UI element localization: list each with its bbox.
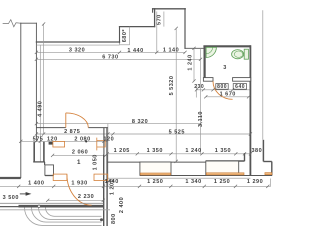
wall mid piece [45, 174, 53, 176]
dimension thin lines [0, 12, 271, 201]
dim ext right end [270, 179, 272, 187]
dim ext x200 [200, 48, 202, 154]
wall room1 north right [88, 127, 108, 129]
svg-text:1 205: 1 205 [114, 148, 130, 154]
svg-text:380: 380 [251, 148, 262, 154]
wall window step vert [244, 153, 246, 161]
wall top hook [152, 9, 154, 12]
wall bath bottom right stub [233, 78, 251, 82]
wall right B horiz [263, 161, 271, 163]
door jamb lower left [53, 174, 67, 180]
dim line 2230 [48, 199, 104, 201]
dim ext x107.9 [107, 124, 109, 187]
dim line 2060 [53, 154, 106, 156]
door arc bathroom [213, 81, 233, 99]
door jamb upper right [97, 138, 105, 151]
svg-text:1 290: 1 290 [247, 179, 263, 185]
wall bottom thin left piece [0, 206, 19, 208]
svg-text:2 060: 2 060 [72, 150, 88, 156]
window1 frame [140, 162, 171, 175]
window2 frame [206, 161, 239, 176]
pipe curve 2 [32, 208, 102, 223]
toilet bowl [232, 50, 244, 59]
dim line bottom row [0, 185, 271, 187]
svg-text:8 320: 8 320 [132, 119, 148, 125]
wall right B vert [262, 140, 264, 162]
svg-text:1 250: 1 250 [214, 179, 230, 185]
wall room2 top outer [36, 41, 119, 43]
wall column B left [33, 142, 35, 162]
wall top [153, 8, 186, 10]
svg-text:5 525: 5 525 [169, 129, 185, 135]
door arc upper [66, 113, 89, 128]
wall room2 top inner line [36, 44, 119, 46]
svg-text:1 240: 1 240 [187, 54, 193, 70]
wall window2 top and step [206, 160, 245, 162]
tick dot 2080 [85, 140, 87, 142]
texts horizontal [3, 47, 263, 200]
wall left outer [20, 23, 22, 177]
svg-text:4 490: 4 490 [37, 101, 43, 117]
door size tag boxes [216, 84, 247, 90]
walls [3, 9, 203, 178]
door leaf upper [65, 113, 67, 128]
wall shaft rect [45, 165, 54, 175]
right/bottom walls [0, 10, 272, 226]
texts rotated [37, 14, 204, 229]
dim line 4490 vertical [43, 24, 45, 134]
tag box 800 [216, 84, 228, 90]
door arc lower [67, 174, 92, 205]
svg-text:1 240: 1 240 [185, 148, 201, 154]
dim box 570 left [156, 12, 158, 53]
svg-text:1 140: 1 140 [163, 47, 179, 53]
svg-text:1 400: 1 400 [28, 180, 44, 186]
wall band lower gray line [107, 177, 250, 179]
dim line 1240 vertical [193, 48, 195, 81]
wall upper ledge [120, 26, 155, 28]
bathroom walls [203, 45, 250, 175]
leader arrow 3500 [20, 192, 32, 196]
svg-text:2 875: 2 875 [64, 129, 80, 135]
junction dot [100, 218, 103, 221]
orange elements [53, 81, 272, 205]
dim line 1670 [206, 96, 249, 98]
window sill 1 [140, 173, 170, 175]
svg-text:6 730: 6 730 [102, 55, 118, 61]
svg-text:1 200: 1 200 [110, 179, 116, 195]
svg-text:1: 1 [77, 159, 81, 166]
wall double mid left [103, 154, 105, 226]
dim line 575-120-2080-120 [21, 140, 108, 142]
svg-text:575: 575 [33, 136, 44, 142]
svg-text:120: 120 [47, 136, 58, 142]
dim line 2875 and 5525 [36, 133, 250, 135]
wall room1 north left [36, 127, 65, 129]
tag box 640 [233, 84, 246, 90]
wall stub upper door [49, 142, 53, 145]
svg-text:5 5320: 5 5320 [169, 76, 175, 96]
wall right of top [184, 9, 186, 49]
wall left column inner [35, 23, 37, 141]
wall bath bottom left stub [203, 78, 213, 82]
svg-text:1 250: 1 250 [147, 179, 163, 185]
wall connector to bath [185, 47, 203, 49]
dim ext 230 left [195, 84, 197, 98]
green fixtures [206, 47, 248, 59]
svg-text:680*: 680* [122, 29, 128, 43]
dim box 680 right [129, 27, 131, 45]
dim box 680 left [119, 43, 121, 45]
svg-text:570: 570 [157, 14, 163, 25]
svg-text:1 350: 1 350 [147, 148, 163, 154]
dim ext 40.3 [39, 45, 41, 161]
svg-text:2 400: 2 400 [119, 197, 125, 213]
svg-text:1 340: 1 340 [185, 179, 201, 185]
svg-text:2 080: 2 080 [74, 136, 90, 142]
svg-text:120: 120 [103, 136, 114, 142]
svg-text:3 320: 3 320 [69, 47, 85, 53]
pipe ring marker [38, 205, 41, 208]
wall thin right edge [262, 10, 264, 140]
wire corridor inner line [0, 202, 103, 204]
pipe curve 4 [46, 208, 102, 217]
wire break symbol top-left [3, 20, 21, 27]
toilet tank [244, 49, 248, 59]
dim box 570 right [163, 12, 165, 27]
wall right edge vert [271, 162, 273, 176]
door jamb upper left [53, 141, 65, 147]
dim box 680 bottom [120, 44, 130, 46]
gray pipe curves bottom-left [0, 208, 110, 226]
toilet seat line [234, 51, 242, 57]
wall 120 piece right [106, 128, 108, 155]
corner washbasin [206, 47, 216, 57]
dimension ticks [17, 22, 269, 202]
wall bottom main [19, 205, 104, 208]
window sill 2 [206, 173, 244, 175]
wall 120 piece left [103, 128, 105, 155]
svg-text:2 230: 2 230 [78, 194, 94, 200]
dim line 1205 row [107, 153, 250, 155]
wall 570 vertical [154, 9, 156, 27]
dim line 8320 [36, 123, 200, 125]
dim line 230-800-640 [197, 89, 251, 91]
svg-text:1 050: 1 050 [93, 154, 99, 170]
svg-text:1 800: 1 800 [111, 213, 117, 226]
svg-text:3 110: 3 110 [198, 111, 204, 127]
wall step column to shaft [44, 162, 46, 165]
dim line 5320 vertical [175, 28, 177, 161]
door jamb lower right [94, 174, 108, 180]
wall left bottom band [0, 177, 21, 179]
wall double mid right [106, 154, 108, 226]
svg-text:1 350: 1 350 [215, 148, 231, 154]
pipe line under wall [0, 209, 110, 211]
wall step 680 [119, 27, 121, 43]
wall band windows bottom line [140, 175, 272, 177]
svg-text:230: 230 [194, 84, 204, 90]
svg-text:1 670: 1 670 [220, 92, 236, 98]
pipe curve 3 [39, 208, 102, 220]
svg-text:3 500: 3 500 [3, 195, 19, 201]
svg-text:1 930: 1 930 [71, 181, 87, 187]
wall column B right [43, 142, 45, 162]
svg-text:3: 3 [223, 65, 227, 71]
wall left column top [21, 22, 37, 24]
wall column B cap [33, 161, 45, 163]
wall bath top [203, 45, 250, 47]
pipe curve 1 [25, 208, 102, 226]
wall band upper line [107, 161, 206, 163]
wall bath right long [249, 45, 251, 175]
dim line 6730 [36, 58, 200, 60]
svg-text:1 440: 1 440 [127, 48, 143, 54]
window sill 3 [265, 173, 272, 175]
dim line 3320/1440/1140 [36, 51, 185, 53]
wall bath left [204, 46, 206, 81]
